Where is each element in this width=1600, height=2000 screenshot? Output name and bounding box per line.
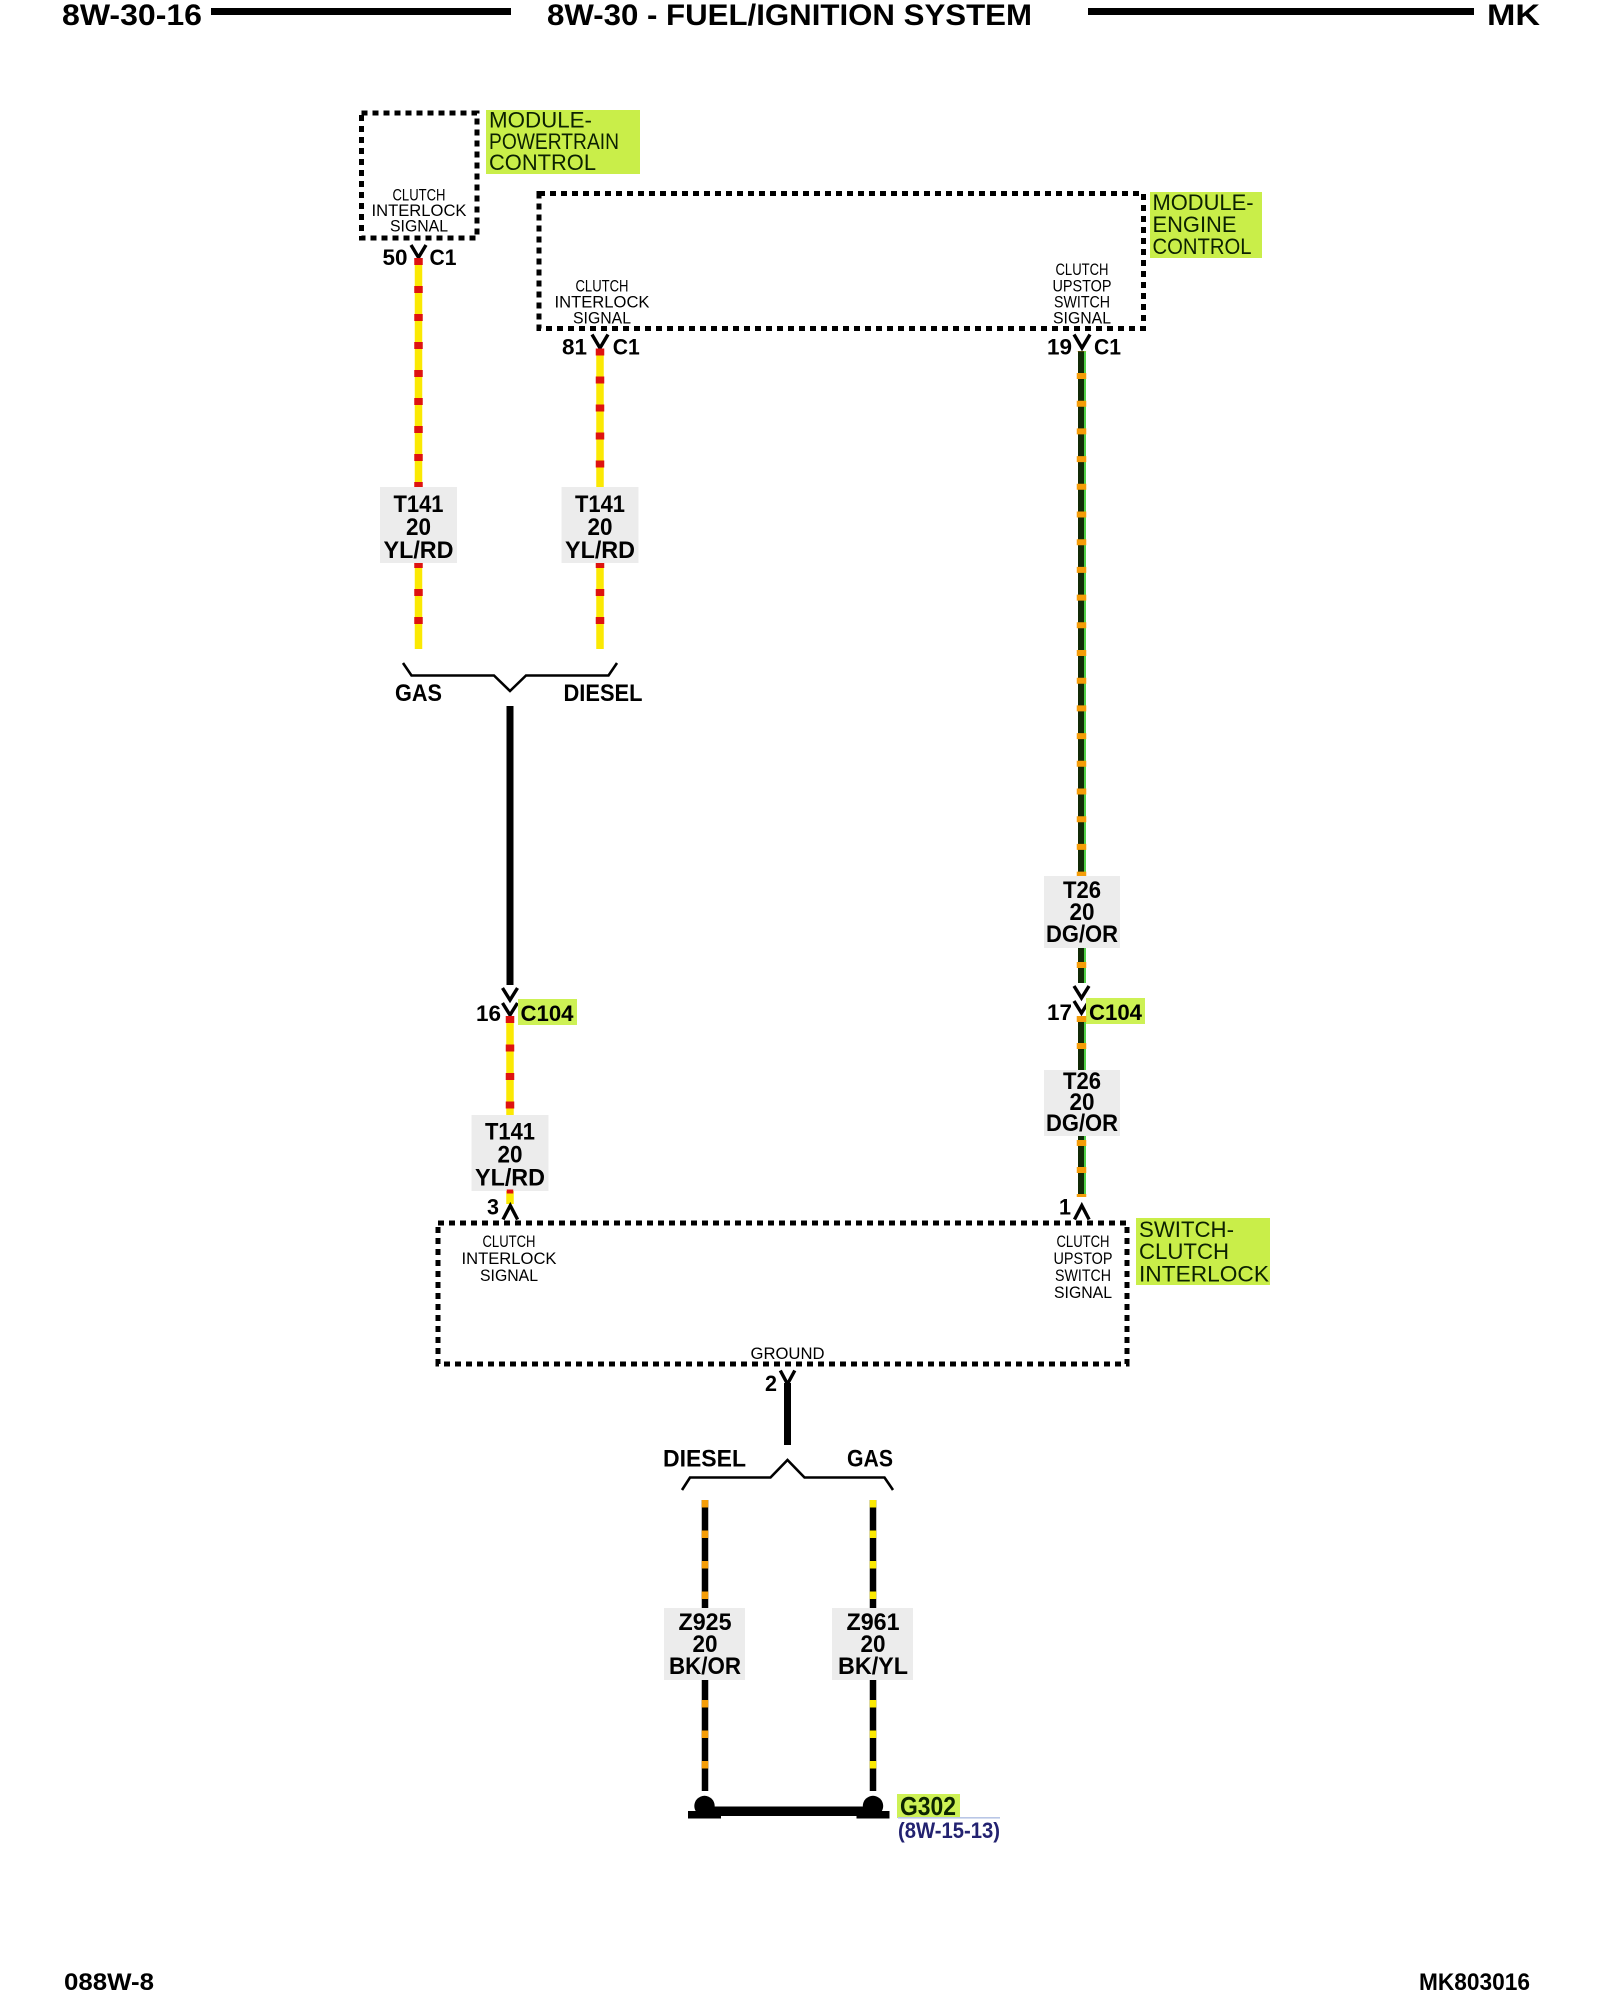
- svg-text:1: 1: [1059, 1195, 1071, 1220]
- svg-text:GAS: GAS: [395, 680, 442, 707]
- wire label Z961 20 BK/YL: [832, 1608, 913, 1680]
- brace: GAS/DIESEL merge: [403, 663, 617, 691]
- svg-text:SIGNAL: SIGNAL: [480, 1266, 538, 1285]
- wire W5: Z925 20 BK/OR (black w/ orange dashes): [702, 1500, 709, 1609]
- svg-text:8W-30 - FUEL/IGNITION SYSTEM: 8W-30 - FUEL/IGNITION SYSTEM: [547, 0, 1032, 32]
- header rule right: [1088, 8, 1474, 15]
- connector label C104 (left, highlighted): [518, 999, 577, 1025]
- svg-text:C104: C104: [521, 1001, 575, 1026]
- wire label T26 20 DG/OR (lower): [1044, 1070, 1120, 1136]
- svg-text:SIGNAL: SIGNAL: [1054, 1283, 1112, 1302]
- svg-text:CONTROL: CONTROL: [1153, 234, 1252, 259]
- header rule left: [211, 8, 511, 15]
- svg-text:SIGNAL: SIGNAL: [1053, 309, 1111, 328]
- switch S1: clutch interlock switch dashed box: [438, 1223, 1127, 1364]
- module U1: powertrain control module dashed box: [362, 113, 478, 238]
- wire W1: T141 20 YL/RD upper (yellow w/ red dots): [415, 258, 423, 649]
- wire W6: Z961 20 BK/YL (black w/ yellow dashes): [870, 1500, 877, 1609]
- wire W4 lower: orange dash at connector then dark green: [1078, 1016, 1084, 1070]
- wire label T141 20 YL/RD (left upper): [380, 487, 457, 563]
- ground bus bar: [706, 1807, 878, 1817]
- connector symbol at pin 3: [503, 1206, 518, 1220]
- connector symbol at pin 50: [411, 245, 426, 258]
- svg-text:G302: G302: [900, 1791, 956, 1821]
- wire label Z925 20 BK/OR: [664, 1608, 745, 1680]
- svg-text:MK803016: MK803016: [1419, 1969, 1530, 1996]
- svg-text:16: 16: [476, 1001, 501, 1026]
- label: SWITCH-CLUTCH INTERLOCK highlight: [1136, 1218, 1270, 1285]
- svg-text:17: 17: [1047, 1000, 1072, 1025]
- svg-text:088W-8: 088W-8: [64, 1969, 154, 1996]
- wire W6 lower segment: [870, 1680, 877, 1791]
- module U2: engine control module dashed box: [539, 194, 1144, 329]
- wire: ground lead from pin 2: [784, 1383, 791, 1445]
- label: MODULE-POWERTRAIN CONTROL highlight: [486, 110, 640, 174]
- wire W4 segment between label and C104: [1078, 948, 1084, 983]
- svg-text:C1: C1: [1094, 335, 1121, 360]
- svg-text:DIESEL: DIESEL: [564, 680, 643, 707]
- svg-text:DG/OR: DG/OR: [1046, 1110, 1118, 1137]
- wire W4 final segment to pin 1: [1078, 1136, 1084, 1197]
- wire W2: T141 20 YL/RD (from pin 81, yellow w/ red dots): [596, 349, 604, 649]
- svg-text:(8W-15-13): (8W-15-13): [898, 1818, 1000, 1843]
- wire: merged black wire to C104: [507, 706, 514, 985]
- wire label T141 20 YL/RD (lower): [472, 1115, 549, 1191]
- svg-text:MK: MK: [1487, 0, 1540, 32]
- connector label C104 (right, highlighted): [1086, 998, 1145, 1024]
- svg-text:YL/RD: YL/RD: [475, 1165, 545, 1192]
- svg-text:C1: C1: [613, 335, 640, 360]
- svg-text:SIGNAL: SIGNAL: [390, 217, 448, 236]
- label G302: [897, 1794, 960, 1818]
- ground terminal (right, Z961): [863, 1796, 883, 1816]
- wire W4: T26 20 DG/OR (dark green w/ orange dashes): [1078, 351, 1084, 876]
- svg-text:CLUTCH: CLUTCH: [1139, 1239, 1229, 1264]
- brace: DIESEL/GAS split: [682, 1460, 893, 1490]
- svg-text:DG/OR: DG/OR: [1046, 921, 1118, 948]
- label: MODULE-ENGINE CONTROL highlight: [1150, 192, 1262, 258]
- svg-text:3: 3: [487, 1195, 499, 1220]
- svg-text:BK/YL: BK/YL: [838, 1653, 908, 1680]
- svg-text:GROUND: GROUND: [751, 1344, 825, 1363]
- svg-text:YL/RD: YL/RD: [384, 537, 454, 564]
- wire W5 lower segment: [702, 1680, 709, 1791]
- svg-text:8W-30-16: 8W-30-16: [62, 0, 202, 32]
- ground terminal (left, Z925): [694, 1796, 714, 1816]
- svg-text:SIGNAL: SIGNAL: [573, 309, 631, 328]
- svg-text:CONTROL: CONTROL: [489, 150, 596, 175]
- connector symbol at pin 2: [780, 1371, 795, 1385]
- connector symbol at pin 81: [592, 335, 608, 349]
- svg-text:19: 19: [1047, 335, 1072, 360]
- wire W3: T141 20 YL/RD lower (yellow w/ red dots): [506, 1016, 514, 1204]
- svg-text:INTERLOCK: INTERLOCK: [1139, 1262, 1269, 1287]
- svg-text:2: 2: [765, 1371, 777, 1396]
- wire label T141 20 YL/RD (right upper): [562, 487, 639, 563]
- svg-text:DIESEL: DIESEL: [663, 1446, 746, 1473]
- svg-text:BK/OR: BK/OR: [669, 1653, 741, 1680]
- in-line connector C104 symbol (double chevron, pin 16): [503, 988, 518, 1000]
- svg-text:C1: C1: [430, 245, 457, 270]
- svg-text:81: 81: [562, 335, 587, 360]
- svg-text:YL/RD: YL/RD: [565, 537, 635, 564]
- svg-text:GAS: GAS: [847, 1446, 893, 1473]
- connector symbol at pin 19: [1074, 335, 1090, 349]
- in-line connector C104 symbol (double chevron, pin 17): [1074, 986, 1089, 998]
- svg-text:C104: C104: [1089, 1000, 1143, 1025]
- connector symbol at pin 1: [1075, 1206, 1090, 1220]
- svg-text:50: 50: [383, 245, 408, 270]
- wire label T26 20 DG/OR (upper): [1044, 876, 1120, 948]
